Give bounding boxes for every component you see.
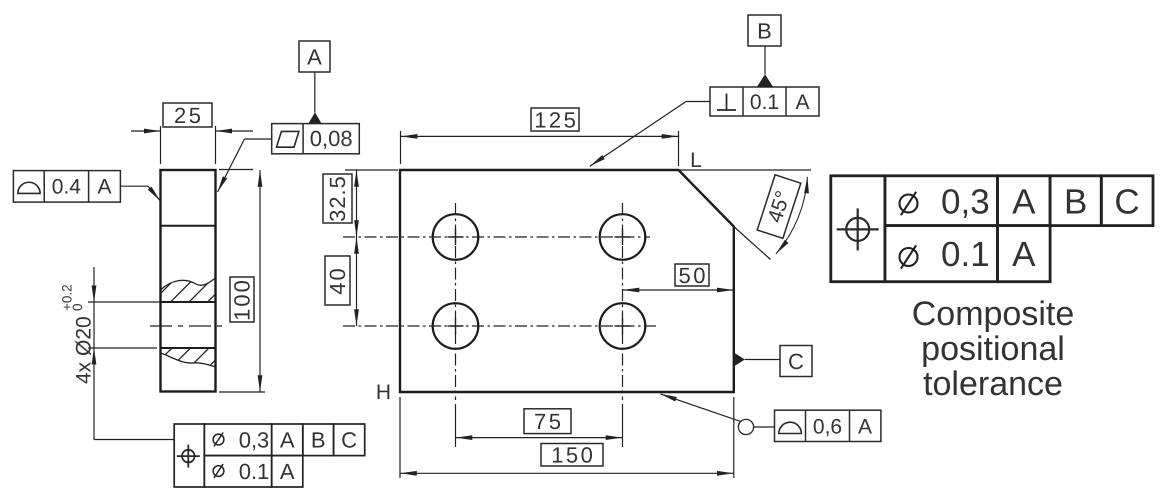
svg-text:25: 25: [174, 103, 203, 128]
svg-text:C: C: [341, 428, 357, 453]
svg-text:0: 0: [70, 303, 85, 311]
svg-text:A: A: [97, 176, 111, 199]
svg-text:32.5: 32.5: [325, 175, 350, 222]
svg-text:A: A: [795, 91, 809, 114]
svg-text:125: 125: [534, 107, 578, 132]
svg-text:B: B: [311, 428, 326, 453]
svg-text:A: A: [280, 459, 295, 484]
svg-text:0.1: 0.1: [750, 91, 779, 114]
svg-text:H: H: [376, 381, 391, 404]
svg-text:A: A: [1012, 235, 1036, 274]
svg-text:positional: positional: [921, 330, 1065, 368]
svg-text:75: 75: [534, 409, 563, 434]
svg-text:L: L: [690, 149, 702, 172]
svg-text:100: 100: [230, 278, 255, 321]
svg-text:150: 150: [551, 443, 595, 468]
svg-text:C: C: [788, 349, 804, 374]
svg-text:0,3: 0,3: [239, 428, 270, 453]
svg-text:0.4: 0.4: [52, 176, 82, 199]
svg-text:0,6: 0,6: [813, 416, 842, 439]
svg-text:A: A: [1012, 183, 1036, 222]
svg-text:0,08: 0,08: [310, 126, 353, 151]
svg-text:0.1: 0.1: [941, 235, 990, 274]
svg-text:tolerance: tolerance: [923, 365, 1063, 403]
svg-text:4x Ø20: 4x Ø20: [73, 316, 96, 384]
svg-text:B: B: [757, 19, 772, 44]
svg-text:40: 40: [325, 266, 350, 294]
svg-text:50: 50: [679, 263, 708, 288]
svg-text:0.1: 0.1: [239, 459, 270, 484]
svg-text:C: C: [1114, 183, 1139, 222]
svg-text:Composite: Composite: [912, 295, 1075, 333]
svg-text:A: A: [858, 416, 872, 439]
svg-text:A: A: [307, 45, 322, 70]
svg-text:0,3: 0,3: [941, 183, 990, 222]
svg-text:A: A: [280, 428, 295, 453]
svg-text:B: B: [1064, 183, 1087, 222]
